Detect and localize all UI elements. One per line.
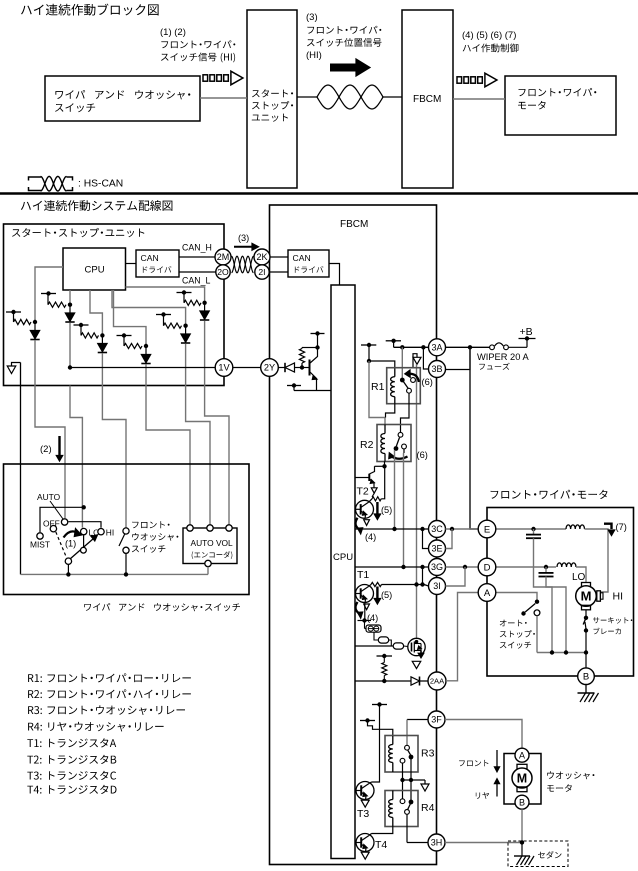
twisted pair HS-CAN unit to FBCM <box>297 96 317 98</box>
wire 3B elbow <box>423 347 428 369</box>
svg-text:(5): (5) <box>381 505 392 515</box>
wire 3F to R3 <box>407 719 428 721</box>
supply tick S1 <box>361 344 376 346</box>
connector 2K <box>254 249 270 265</box>
svg-text:2O: 2O <box>217 267 229 277</box>
svg-text:E: E <box>484 524 490 535</box>
wire inductor to HI <box>585 529 609 592</box>
title: high continuous operation block diagram <box>21 4 159 16</box>
wire 3A to fuse <box>446 346 490 348</box>
legend line 3 <box>28 705 185 715</box>
junction LO wire <box>82 505 86 509</box>
relay R2 contact common <box>394 446 399 451</box>
AUTO VOL pin 3 <box>226 525 232 531</box>
junction row a <box>400 778 404 782</box>
junction 3G row b <box>420 565 424 569</box>
svg-text:M: M <box>581 589 592 604</box>
ground wiper motor <box>585 685 587 694</box>
twisted pair 2M/2O to 2K/2I <box>232 256 254 273</box>
wire W3 (lo) <box>70 386 82 528</box>
pull-up network D: tick <box>117 335 132 337</box>
svg-text:FBCM: FBCM <box>413 94 441 105</box>
connector D <box>478 558 496 576</box>
wire FBCM to motor <box>453 98 505 100</box>
wire S4 to relay coils <box>368 721 393 737</box>
svg-text:M: M <box>517 771 527 785</box>
svg-text:(3): (3) <box>306 12 318 23</box>
svg-text:D: D <box>484 562 491 573</box>
pull-up network A: tick <box>6 311 21 313</box>
wire R3 out a <box>410 757 412 780</box>
wire 3G to T1 row elbow <box>422 567 424 585</box>
pivot stem to rail <box>67 564 69 574</box>
wire rail to B <box>585 653 587 669</box>
pull-up network B: resistor <box>47 294 49 305</box>
wire CAN driver to 2O <box>179 271 216 273</box>
svg-text:(4): (4) <box>365 532 376 542</box>
svg-text:3I: 3I <box>433 581 441 591</box>
svg-text:2Y: 2Y <box>264 363 275 373</box>
relay R3 contact NC <box>400 758 405 763</box>
connector 3H <box>428 834 445 851</box>
svg-text:(HI): (HI) <box>306 50 322 61</box>
relay R2 coil <box>384 425 386 434</box>
section divider <box>0 192 638 195</box>
svg-text:(5): (5) <box>381 590 392 600</box>
junction 3A row b <box>421 345 425 349</box>
wire T1 row <box>382 584 425 586</box>
relay R3 box <box>385 736 418 773</box>
AUTO VOL pin 1 <box>187 525 193 531</box>
wire 3G to D <box>446 566 479 568</box>
wire W7 (auto vol 3) <box>205 386 229 525</box>
wire rail to AUTO VOL <box>207 567 209 575</box>
T4 ground marker <box>361 852 369 859</box>
legend line 7 <box>27 771 116 780</box>
label front washer switch <box>132 521 169 528</box>
junction 3G row a <box>401 565 405 569</box>
relay R2 blade <box>396 438 399 447</box>
supply tick S2 <box>386 340 401 342</box>
wire terminal a to b <box>389 640 394 646</box>
wire row to R4 a <box>402 780 404 799</box>
connector 3C <box>429 521 446 538</box>
front washer switch blade <box>119 534 125 546</box>
switch common rail <box>21 573 209 575</box>
signal arrow (1)(2) switch to unit <box>203 75 208 81</box>
resistor 2AA pull tick <box>377 655 393 657</box>
svg-text:FBCM: FBCM <box>340 219 368 230</box>
svg-text:(4) (5) (6) (7): (4) (5) (6) (7) <box>462 30 516 41</box>
svg-text:R3: R3 <box>421 748 435 760</box>
svg-text:: HS-CAN: : HS-CAN <box>78 179 123 190</box>
wire T1 emitter down <box>364 603 366 621</box>
svg-text:3A: 3A <box>431 342 442 352</box>
inline terminal a <box>378 637 388 643</box>
connector 3I <box>429 578 446 595</box>
svg-text:3C: 3C <box>431 524 443 534</box>
AUTO VOL pin 2 <box>207 525 213 531</box>
wire R1 coil out <box>386 404 395 418</box>
svg-text:AUTO: AUTO <box>37 492 61 502</box>
T1 output marker <box>364 604 370 610</box>
junction T1 row b <box>420 582 424 586</box>
wire 3I elbow (ext) <box>446 567 466 586</box>
junction row b <box>409 778 413 782</box>
motor ground rail <box>537 652 586 654</box>
connector 3A <box>429 339 446 356</box>
svg-text:CPU: CPU <box>333 552 353 563</box>
bridge MIST-LO <box>40 507 84 532</box>
wire S1 to R2 coil <box>369 361 385 425</box>
svg-text:T2: T2 <box>357 486 369 498</box>
sedan dashed box <box>508 841 568 867</box>
T2 output swoosh <box>356 518 361 530</box>
relay R2 actuate arrow <box>392 457 408 459</box>
label start-stop unit <box>12 228 144 237</box>
svg-text:CAN: CAN <box>141 253 159 263</box>
svg-text:CPU: CPU <box>85 265 105 276</box>
page marker triangle (6) R1 <box>413 354 417 368</box>
svg-text:1V: 1V <box>218 363 230 373</box>
wire inductor to LO <box>576 567 586 583</box>
connector B (wiper motor) <box>578 668 595 685</box>
block: FBCM <box>402 10 453 188</box>
pull-up network E: resistor <box>163 315 165 326</box>
inductor D (LO winding) <box>557 563 576 567</box>
svg-text:T3: T3 <box>357 808 369 820</box>
svg-text:WIPER 20 A: WIPER 20 A <box>477 352 529 362</box>
wire CPU to CAN driver <box>126 263 137 265</box>
supply tick S3 <box>372 704 387 706</box>
junction 3G-D row <box>463 565 467 569</box>
connector 3E <box>429 540 446 557</box>
relay R4 blade <box>408 804 411 809</box>
resistor T2 collector feed <box>372 493 374 497</box>
CPU F-box <box>331 285 355 859</box>
connector 3F <box>428 711 445 728</box>
svg-text:2M: 2M <box>217 252 230 262</box>
relay R1 coil <box>394 369 396 377</box>
CPU U-unit box <box>63 248 126 290</box>
washer motor box <box>504 754 541 805</box>
relay R1 actuate arrow <box>409 374 419 382</box>
junction 3C row b <box>420 527 424 531</box>
svg-text:AUTO VOL: AUTO VOL <box>191 538 234 548</box>
ground sedan <box>521 843 523 857</box>
svg-text:A: A <box>484 588 491 599</box>
wire row to R4 b <box>410 780 412 802</box>
transistor T3 <box>356 782 374 800</box>
CAN driver box (FBCM) <box>288 250 329 277</box>
transistor Q2Y <box>302 367 310 369</box>
svg-text:3F: 3F <box>431 715 442 725</box>
wire W5 (auto vol 1) <box>146 386 190 525</box>
wire R4 coil to T4 <box>372 827 393 834</box>
CAN driver box (unit) <box>136 250 179 277</box>
node 2Y-R junction <box>300 365 304 369</box>
wire A row <box>496 593 537 601</box>
svg-text:CAN: CAN <box>293 253 311 263</box>
wire inter-relay row <box>403 779 426 781</box>
svg-text:HI: HI <box>106 528 114 538</box>
legend line 6 <box>27 755 116 764</box>
relay R3 coil <box>392 736 394 745</box>
wire CPU to node A <box>35 267 63 322</box>
T3 ground marker <box>361 800 369 807</box>
wire W6 (auto vol 2) <box>186 386 210 525</box>
node T1 emitter tick <box>358 620 372 622</box>
diode D2AA (to 2AA) <box>411 677 420 685</box>
svg-text:(1) (2): (1) (2) <box>160 27 186 38</box>
front washer switch contact lower <box>123 547 129 553</box>
junction D cap <box>544 565 548 569</box>
svg-text:CAN_L: CAN_L <box>182 276 210 286</box>
wire washer B to 3H row <box>521 809 523 842</box>
page marker triangle washer <box>424 780 426 784</box>
rotary pivot contact <box>65 558 71 564</box>
connector 2Y <box>261 359 279 377</box>
relay R4 contact common <box>409 800 414 805</box>
inline terminal b <box>393 643 403 649</box>
supply tick 2Y <box>311 333 325 335</box>
node E junction <box>183 324 187 328</box>
node C junction <box>100 333 104 337</box>
junction rail c <box>584 650 588 654</box>
wire CPU to node C <box>90 290 102 335</box>
emitter tick 2Y <box>287 385 301 387</box>
relay R4 box <box>385 791 418 827</box>
legend line 2 <box>28 689 191 698</box>
wire 2AA row <box>355 680 428 682</box>
junction on 1V row <box>68 365 72 369</box>
pull-up network F: tick <box>177 292 192 294</box>
T1 output swoosh <box>356 602 361 614</box>
relay R2 contact NO <box>402 444 407 449</box>
capacitor C1 <box>533 529 535 535</box>
svg-text:3B: 3B <box>431 364 442 374</box>
wire 1V row <box>70 367 215 369</box>
Q3 ground marker <box>412 661 421 668</box>
supply tick S4 <box>360 720 375 722</box>
T2 output marker <box>364 520 370 526</box>
junction T1 row a <box>414 582 418 586</box>
svg-text:T1: T1 <box>357 569 369 581</box>
svg-text:A: A <box>519 750 525 760</box>
label circuit breaker <box>593 617 632 624</box>
junction 3H-ground <box>520 840 524 844</box>
wire R3 out b <box>402 763 404 780</box>
relay R4 coil <box>392 791 394 800</box>
start-stop unit box <box>4 224 225 386</box>
front wiper motor box <box>487 508 634 677</box>
component jumper block <box>366 625 381 632</box>
diode E <box>185 326 187 334</box>
circuit breaker <box>585 610 587 617</box>
contact MIST <box>37 533 43 539</box>
wire 3A row <box>394 346 429 348</box>
wire Q2Y emitter to CPU <box>294 390 331 392</box>
label front wiper motor <box>491 490 608 499</box>
AUTO VOL pin 4 (bottom) <box>205 560 211 566</box>
diode A <box>34 322 36 331</box>
junction E cap <box>531 527 535 531</box>
junction rail b <box>564 650 568 654</box>
junction 3C-E row <box>450 527 454 531</box>
contact LO lower terminal <box>83 535 85 547</box>
title: high continuous operation system wiring diagram <box>21 200 173 211</box>
wire R2 common to 3C row <box>394 450 396 529</box>
connector 2I <box>255 265 269 279</box>
junction 3C row a <box>392 527 396 531</box>
wire CPU to node E <box>112 290 186 326</box>
relay R2 box <box>377 425 411 462</box>
node F junction <box>202 301 206 305</box>
wire 3E elbow (ext) <box>446 529 453 549</box>
svg-text:3G: 3G <box>431 562 443 572</box>
svg-text:R2: R2 <box>360 439 374 451</box>
wire S1 to R1 coil <box>369 361 395 369</box>
resistor T1 collector <box>371 582 382 586</box>
rail junction pivot <box>66 572 70 576</box>
wire switch to unit <box>200 97 247 99</box>
legend HS-CAN symbol <box>29 177 42 181</box>
wiper and washer switch box <box>4 464 250 595</box>
svg-text:(6): (6) <box>422 377 433 387</box>
svg-text:B: B <box>583 672 589 683</box>
wire 3H row <box>445 842 522 844</box>
wire R2 NO to 3G row <box>403 453 405 567</box>
AUTO VOL encoder box <box>183 528 237 564</box>
capacitor C2 <box>545 567 547 573</box>
node S1 junction <box>367 359 371 363</box>
junction fuse feed <box>468 345 472 349</box>
wire 3E elbow <box>423 529 429 549</box>
relay R1 blade <box>402 380 408 389</box>
supply +B <box>526 339 528 348</box>
wire R2 coil to T2 node <box>384 462 386 467</box>
wire S3 to T3 collector <box>372 705 380 783</box>
svg-text:3H: 3H <box>431 838 443 848</box>
contact OFF <box>50 526 56 532</box>
wire CPU to node D <box>114 290 147 346</box>
wire 3C to E <box>446 528 479 530</box>
wire 2AA to A <box>446 593 478 681</box>
diode B <box>69 305 71 313</box>
wire 2K to CAN driver <box>270 256 288 258</box>
transistor T4 <box>356 834 374 852</box>
T1 arrow (5) <box>376 587 378 601</box>
svg-text:2AA: 2AA <box>430 677 445 686</box>
connector 3G <box>429 559 446 576</box>
wire S1 down <box>368 345 370 361</box>
label wiper and washer switch <box>84 603 240 611</box>
T2 emitter marker <box>371 488 377 493</box>
svg-text:(1): (1) <box>65 539 76 549</box>
wire terminal b to Q3 <box>404 645 408 648</box>
svg-text:2I: 2I <box>258 267 265 277</box>
node T2 collector <box>382 464 386 468</box>
rotary OFF dashed blade <box>56 532 67 558</box>
svg-text:(6): (6) <box>417 450 428 460</box>
T2 arrow (5) <box>376 502 378 516</box>
Q3 source arrow <box>420 651 422 654</box>
contact HI <box>98 529 104 535</box>
label sedan <box>538 851 562 859</box>
svg-text:R4: R4 <box>421 802 435 814</box>
wire CPU to node F <box>126 287 205 303</box>
wiper motor M <box>582 583 591 588</box>
connector A (washer) <box>515 748 529 762</box>
bold arrow (3) <box>330 64 356 72</box>
svg-text:(3): (3) <box>238 233 249 243</box>
wire W2 (auto) <box>35 386 65 519</box>
connector E <box>478 520 496 538</box>
wire R1 contact feed <box>401 347 403 379</box>
relay R1 contact common <box>400 378 405 383</box>
contact LO <box>81 528 87 534</box>
wire D row <box>496 566 556 568</box>
wire CAN driver to CPU <box>329 264 340 286</box>
wire 3F to washer A <box>445 720 522 748</box>
connector A <box>478 584 496 602</box>
label front + arrow <box>459 760 488 766</box>
relay R1 contact NO-a <box>407 388 412 393</box>
washer motor M <box>517 764 527 769</box>
wire 1V to 2Y <box>233 367 261 369</box>
rotation arrow (1) <box>64 531 78 537</box>
svg-text:T4: T4 <box>375 839 387 851</box>
block: wiper and washer switch <box>45 76 200 121</box>
relay R1 box <box>387 368 421 404</box>
relay R3 contact common <box>409 755 414 760</box>
svg-text:MIST: MIST <box>30 540 50 550</box>
svg-text:CAN_H: CAN_H <box>182 243 212 253</box>
connector 2AA <box>428 672 446 690</box>
wire 3C row <box>355 528 429 530</box>
inductor E (HI winding) <box>566 525 585 529</box>
junction 3A row a <box>400 345 404 349</box>
wire CPU to terminal b <box>355 645 393 647</box>
contact AUTO <box>61 519 67 525</box>
svg-text:3E: 3E <box>431 544 442 554</box>
wire S2 to 3A row <box>393 341 395 348</box>
junction 2AA row <box>382 679 386 683</box>
resistor 2AA pull <box>383 656 385 663</box>
wire R1 NO to R2 <box>401 393 410 432</box>
block: start-stop unit <box>247 10 297 188</box>
relay R1 contact NO-b <box>411 378 416 383</box>
front washer switch contact upper <box>123 528 129 534</box>
pull-up network C: tick <box>74 324 89 326</box>
relay R3 blade <box>408 750 411 755</box>
legend line 4 <box>28 722 164 732</box>
resistor 2Y pull-up <box>299 349 304 364</box>
pull-up network B: tick <box>41 293 56 295</box>
connector 3B <box>429 361 446 378</box>
wire E row <box>496 528 566 530</box>
wire CPU to node B <box>69 290 71 305</box>
relay R4 contact in <box>400 799 405 804</box>
svg-text:(4): (4) <box>367 613 378 623</box>
label auto-stop switch <box>500 620 527 627</box>
node A junction <box>33 320 37 324</box>
connector 1V <box>215 359 233 377</box>
relay R2 contact in <box>398 432 403 437</box>
wire W4 (washer) <box>102 386 126 528</box>
pull-up network E: tick <box>156 314 171 316</box>
svg-text:2K: 2K <box>256 252 267 262</box>
